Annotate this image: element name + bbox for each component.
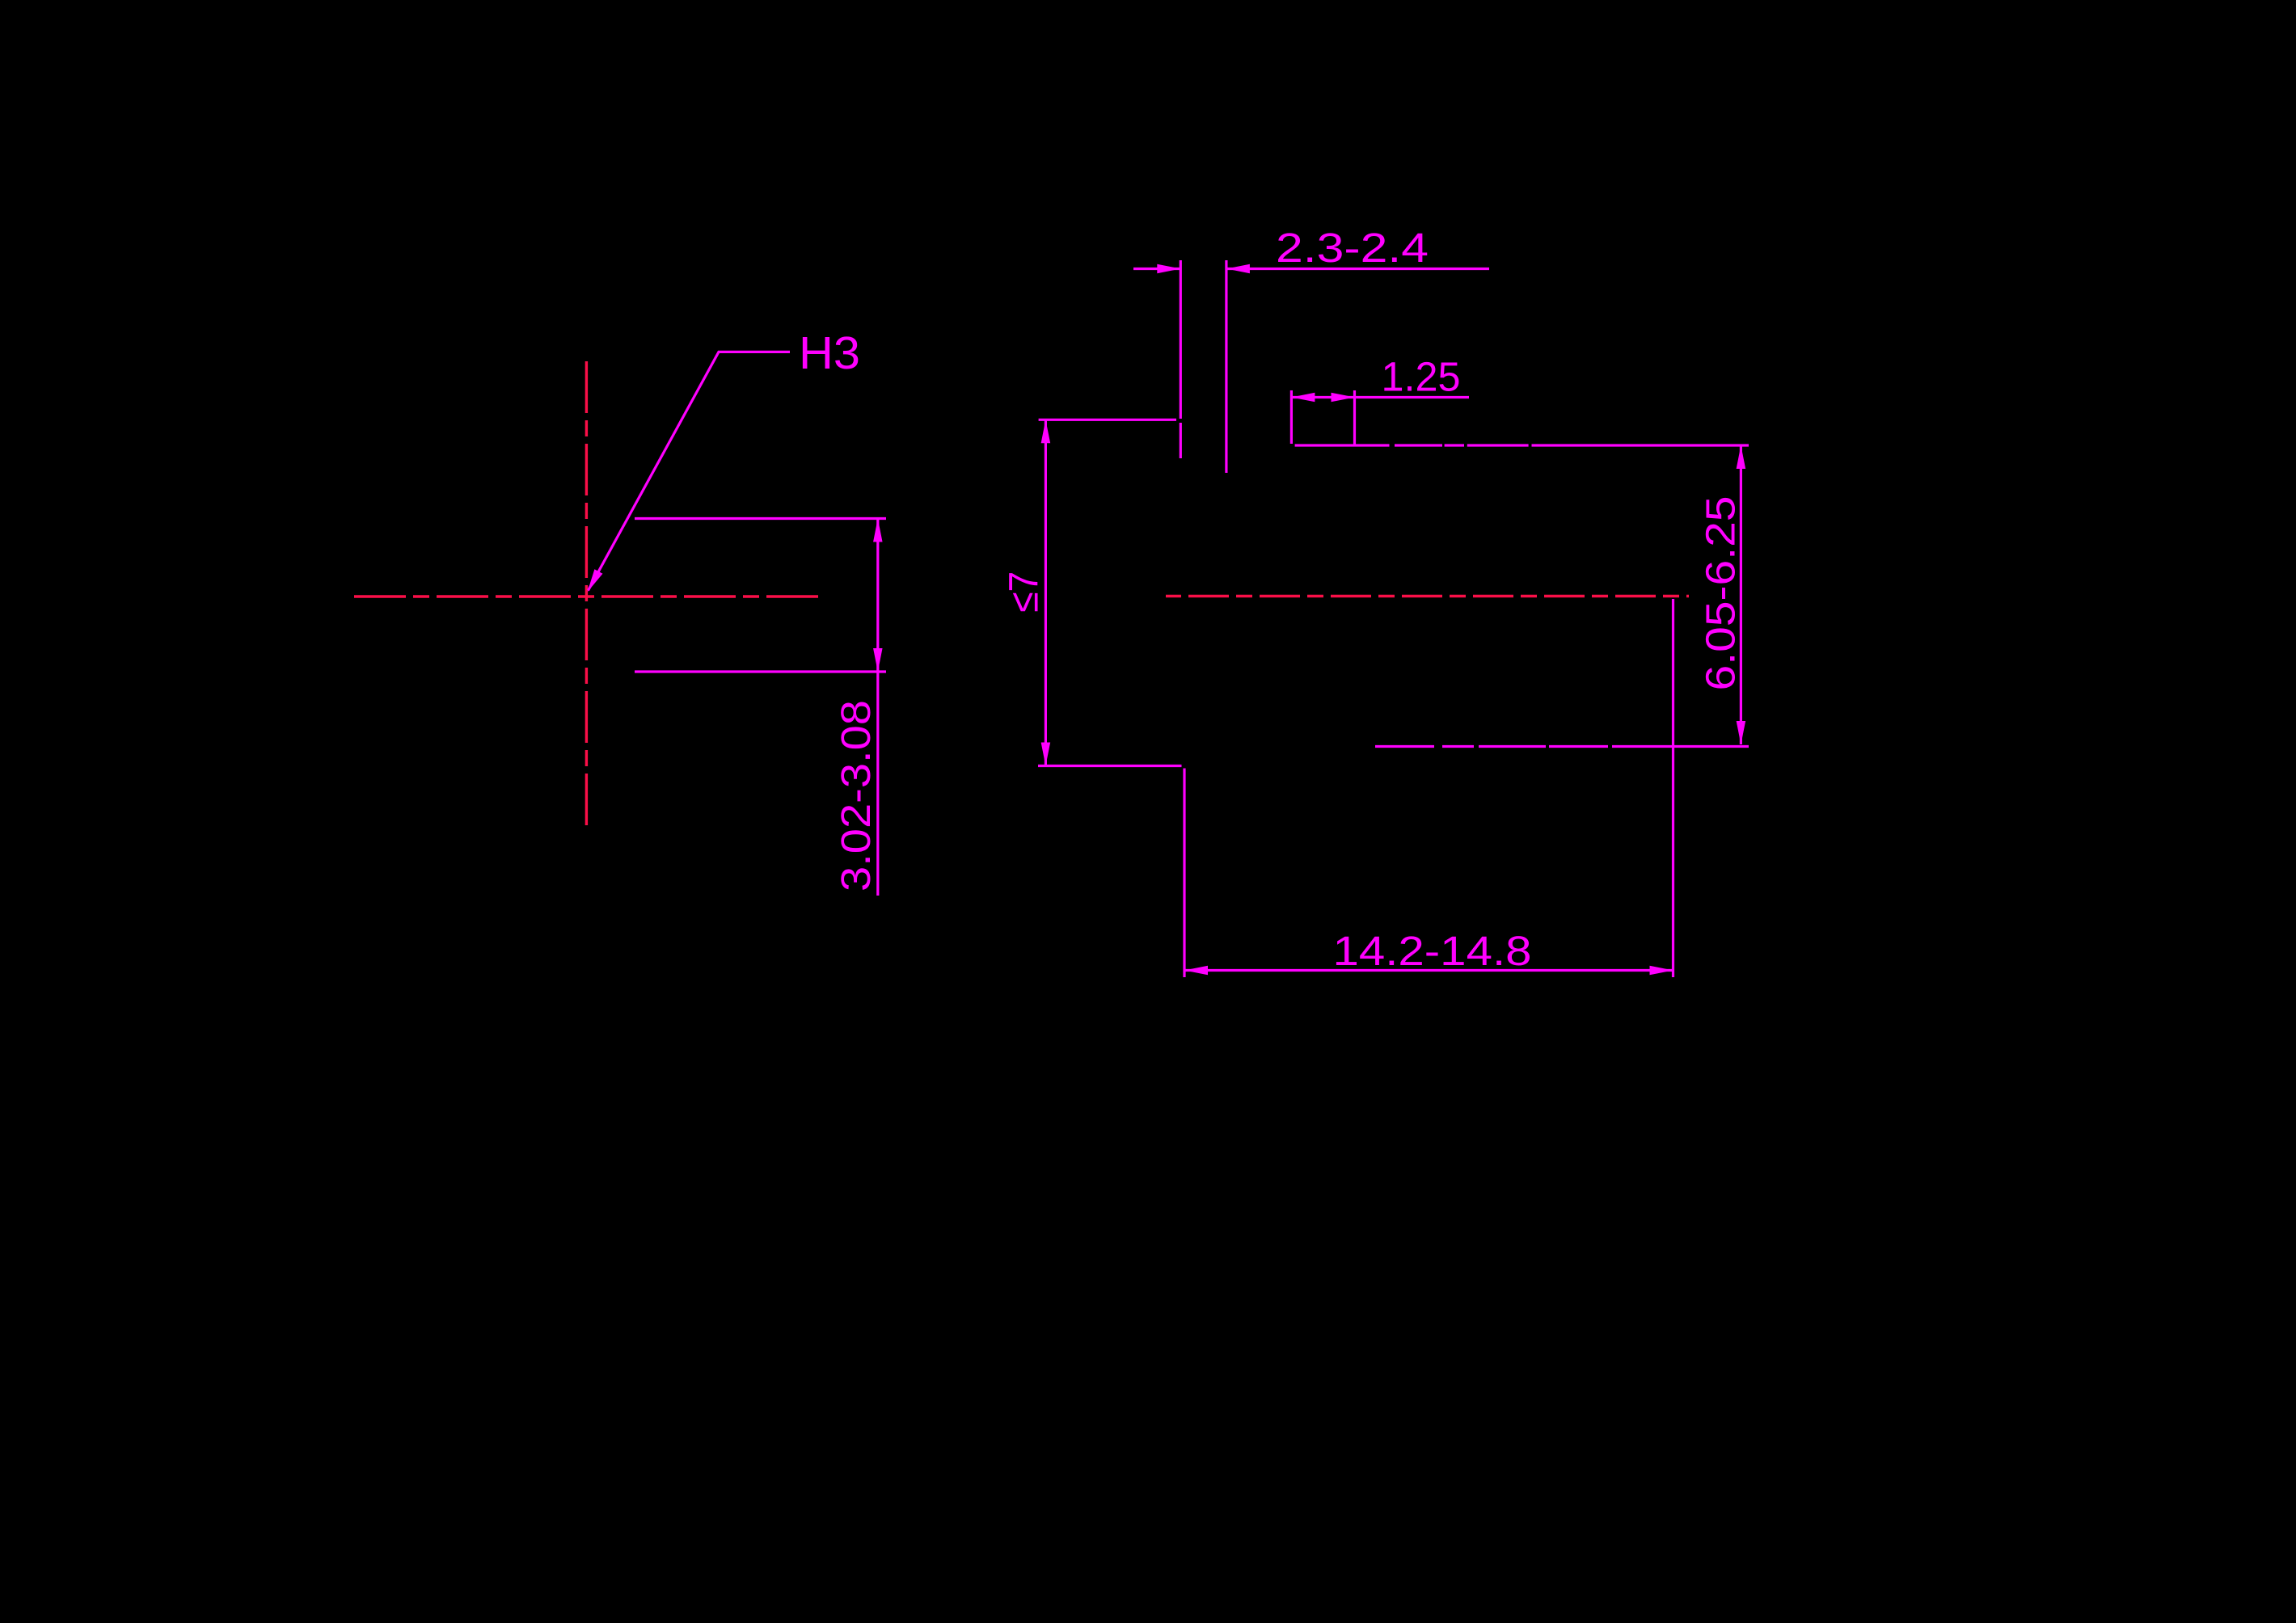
svg-text:1.25: 1.25	[1382, 354, 1461, 400]
svg-text:14.2-14.8: 14.2-14.8	[1333, 928, 1532, 974]
svg-text:2.3-2.4: 2.3-2.4	[1276, 225, 1429, 271]
svg-text:≤7: ≤7	[1001, 571, 1047, 613]
svg-text:6.05-6.25: 6.05-6.25	[1697, 496, 1743, 691]
dimension 14.2-14.8 arrow left	[1184, 966, 1208, 976]
centerline horizontal (right view)	[1166, 595, 1689, 597]
slot left edge / extension line	[1180, 260, 1182, 419]
slot left edge lower part	[1180, 423, 1182, 458]
dimension <=7 arrow up	[1041, 419, 1051, 443]
dimension 2.3-2.4 arrow right	[1157, 264, 1180, 274]
dimension 2.3-2.4 dimension line right segment	[1226, 268, 1489, 270]
dimension 1.25 left extension line	[1290, 390, 1293, 444]
dimension 14.2-14.8 arrow right	[1650, 966, 1673, 976]
dimension 14.2-14.8 dimension line	[1184, 969, 1673, 972]
part outline bottom-left	[1038, 765, 1182, 767]
dimension 3.02-3.08 bottom extension line	[635, 670, 886, 672]
part outline step vertical	[1183, 769, 1185, 978]
dimension 3.02-3.08 arrow up	[873, 519, 883, 542]
part outline top-left	[1039, 419, 1176, 421]
dimension 1.25 dimension line	[1291, 396, 1469, 398]
dimension 2.3-2.4 dimension line left segment	[1133, 268, 1180, 270]
dimension 3.02-3.08 arrow down	[873, 648, 883, 672]
leader H3 arrowhead	[588, 569, 603, 592]
dimension 2.3-2.4 arrow left	[1226, 264, 1250, 274]
dimension 1.25 arrow right	[1332, 393, 1355, 403]
dimension 6.05-6.25 dimension line	[1740, 445, 1742, 744]
centerline horizontal (left view)	[354, 595, 820, 597]
dimension 6.05-6.25 arrow down	[1737, 721, 1746, 744]
dimension 1.25 arrow left	[1291, 393, 1315, 403]
svg-text:H3: H3	[799, 327, 860, 379]
hidden line bottom (y=923.5)	[1375, 745, 1749, 748]
dimension 14.2-14.8 right extension line	[1672, 599, 1674, 977]
centerline vertical (left view)	[585, 361, 588, 828]
dimension 6.05-6.25 arrow up	[1737, 445, 1746, 469]
hidden line top (y=551)	[1295, 444, 1749, 446]
leader H3	[589, 352, 791, 590]
slot right edge / extension line	[1225, 260, 1227, 473]
dimension 1.25 right extension line	[1353, 390, 1356, 446]
dimension 3.02-3.08 dimension line	[876, 519, 879, 896]
dimension <=7 arrow down	[1041, 743, 1051, 766]
dimension 3.02-3.08 top extension line	[635, 517, 886, 520]
dimension <=7 dimension line	[1045, 419, 1047, 765]
svg-text:3.02-3.08: 3.02-3.08	[833, 700, 879, 892]
